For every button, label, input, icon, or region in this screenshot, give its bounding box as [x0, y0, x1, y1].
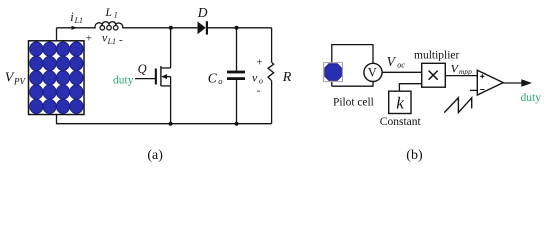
- svg-text:v: v: [252, 71, 258, 85]
- pilot cell PC1: [324, 45, 373, 87]
- svg-text:-: -: [119, 34, 123, 46]
- transistor Q (MOSFET): [135, 66, 171, 86]
- label Pilot cell: [333, 97, 374, 109]
- svg-text:+: +: [86, 33, 92, 45]
- label L1: [105, 7, 118, 20]
- wire: drain to top rail: [170, 28, 172, 68]
- label Co: [208, 70, 223, 86]
- svg-text:(a): (a): [147, 148, 163, 163]
- svg-text:k: k: [396, 93, 404, 112]
- voltmeter V1: [364, 63, 382, 81]
- wire: top rail mid segment: [123, 27, 198, 29]
- svg-text:Q: Q: [138, 62, 147, 76]
- label duty (output): [521, 92, 542, 104]
- label duty (gate drive): [113, 74, 134, 86]
- label V_mpp: [451, 61, 473, 76]
- caption (a): [147, 148, 163, 163]
- diode D: [198, 21, 209, 34]
- op-amp comparator U2: [477, 70, 503, 95]
- label V_oc: [387, 54, 406, 70]
- wire: k output to multiplier input: [399, 84, 421, 92]
- svg-text:multiplier: multiplier: [414, 49, 460, 61]
- capacitor Co: [227, 28, 245, 124]
- wire: top rail left segment with current arrow iL1: [57, 26, 96, 30]
- svg-text:1: 1: [114, 11, 118, 20]
- svg-text:R: R: [282, 70, 292, 85]
- svg-text:o: o: [218, 76, 222, 86]
- inductor L1: [95, 22, 123, 30]
- label V_PV: [5, 71, 27, 87]
- multiplier U1: [422, 63, 446, 87]
- node: source junction on bottom rail: [169, 122, 173, 126]
- label D: [197, 5, 208, 20]
- svg-text:oc: oc: [397, 61, 405, 70]
- label Constant: [380, 116, 422, 128]
- svg-text:L: L: [105, 7, 112, 19]
- svg-text:duty: duty: [521, 92, 542, 104]
- constant block k: [389, 91, 411, 113]
- wire: top rail right segment: [208, 27, 272, 29]
- wire: Vmpp net: [445, 75, 477, 77]
- label Q: [138, 62, 147, 76]
- node: drain junction on top rail: [169, 26, 173, 30]
- svg-text:Pilot cell: Pilot cell: [333, 97, 374, 109]
- svg-text:D: D: [197, 5, 208, 20]
- label R: [282, 70, 292, 85]
- svg-text:V: V: [368, 65, 377, 79]
- svg-text:L1: L1: [74, 16, 83, 25]
- wire: source to bottom rail: [170, 86, 172, 124]
- PV panel PV1: [29, 41, 85, 115]
- sawtooth generator: [444, 98, 472, 113]
- wire: duty output with arrow: [503, 79, 532, 86]
- svg-text:Constant: Constant: [380, 116, 422, 128]
- svg-text:L1: L1: [107, 37, 116, 46]
- wire: bottom rail: [57, 115, 272, 124]
- svg-text:-: -: [257, 85, 261, 97]
- svg-text:(b): (b): [406, 148, 423, 163]
- label + vo - (output voltage): [252, 57, 263, 97]
- svg-text:mpp: mpp: [459, 67, 472, 76]
- node: capacitor junction on bottom rail: [235, 122, 239, 126]
- label + v_L1 - (inductor voltage): [86, 31, 123, 46]
- svg-text:duty: duty: [113, 74, 134, 86]
- resistor R: [268, 28, 274, 124]
- svg-text:+: +: [256, 57, 262, 69]
- wire: Voc net: [382, 71, 422, 73]
- svg-text:PV: PV: [13, 76, 26, 86]
- wire: sawtooth to comparator inverting input: [470, 89, 477, 91]
- label i_L1: [70, 10, 83, 25]
- caption (b): [406, 148, 423, 163]
- wire: PV top lead: [56, 28, 58, 41]
- label multiplier: [414, 49, 460, 61]
- svg-text:C: C: [208, 70, 218, 85]
- node: capacitor junction on top rail: [235, 26, 239, 30]
